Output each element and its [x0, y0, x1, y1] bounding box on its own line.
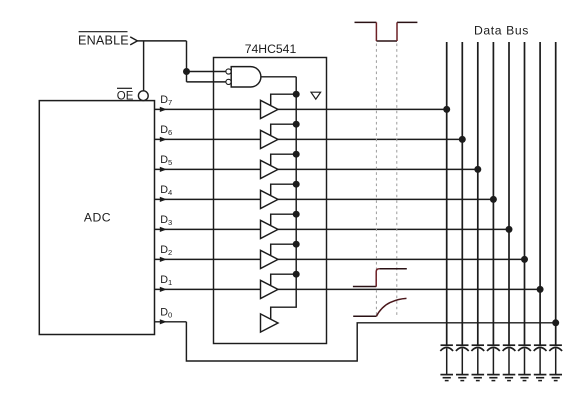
buffer U3e (D3) with enable stub — [261, 214, 297, 238]
D4 arrow — [160, 197, 167, 202]
wire: D7 buffer output to bus — [278, 108, 447, 110]
enable polarity symbol (nabla) — [311, 92, 321, 99]
D0 arrow — [160, 319, 167, 324]
ground G6 — [518, 375, 531, 381]
capacitor C1 — [440, 345, 453, 374]
capacitor C4 — [487, 345, 500, 374]
junction: ENABLE/AND node — [183, 68, 190, 75]
wire: ENABLE down to AND inputs — [186, 41, 188, 82]
wire: ENABLE horizontal run — [137, 40, 186, 42]
wire: D0 from ADC — [155, 321, 187, 323]
OE inverting bubble on ADC — [138, 91, 148, 101]
wire: D7 from ADC to buffer — [155, 108, 261, 110]
wire: D6 from ADC to buffer — [155, 138, 261, 140]
buffer U3a (D7) with enable stub — [261, 94, 297, 118]
wire: D2 buffer output to bus — [278, 258, 525, 260]
capacitor C8 — [549, 345, 562, 374]
D1 arrow — [160, 287, 167, 292]
fast rise output waveform — [353, 269, 407, 287]
ENABLE input arrow — [130, 37, 137, 45]
junction: D5 enable stub — [293, 151, 300, 158]
junction: D3 to bus line — [506, 226, 513, 233]
D2 arrow — [160, 257, 167, 262]
bus line 3 — [477, 42, 479, 345]
wire: D5 from ADC to buffer — [155, 168, 261, 170]
wire: AND output to enable bus — [261, 76, 296, 78]
junction: D1 enable stub — [293, 271, 300, 278]
wire: AND input A — [187, 71, 227, 73]
junction: D1 to bus line — [537, 286, 544, 293]
wire: D4 buffer output to bus — [278, 198, 493, 200]
ENABLE overline — [79, 31, 128, 33]
svg-text:D6: D6 — [160, 124, 172, 137]
svg-text:D7: D7 — [160, 94, 172, 107]
buffer U3c (D5) with enable stub — [261, 154, 297, 178]
OE enable pulse waveform — [355, 22, 418, 41]
timing dashed line 2 — [396, 44, 398, 317]
D6 arrow — [160, 137, 167, 142]
AND gate U2 (active-low inputs) — [226, 67, 261, 87]
junction: D2 to bus line — [521, 256, 528, 263]
capacitor C7 — [534, 345, 547, 374]
buffer U3b (D6) with enable stub — [261, 124, 297, 148]
svg-text:D5: D5 — [160, 154, 172, 167]
buffer U3d (D4) with enable stub — [261, 184, 297, 208]
wire: D4 from ADC to buffer — [155, 198, 261, 200]
svg-text:D1: D1 — [160, 274, 172, 287]
bus line 5 — [508, 42, 510, 345]
wire: D1 buffer output to bus — [278, 288, 540, 290]
capacitor C6 — [518, 345, 531, 374]
junction: D0 to bus line — [552, 319, 559, 326]
junction: D6 to bus line — [459, 136, 466, 143]
wire: D5 buffer output to bus — [278, 168, 478, 170]
slow rise output waveform — [353, 298, 406, 316]
svg-text:ENABLE: ENABLE — [78, 34, 129, 48]
wire: D6 buffer output to bus — [278, 138, 462, 140]
ground G2 — [456, 375, 469, 381]
ground G4 — [487, 375, 500, 381]
svg-text:D4: D4 — [160, 184, 172, 197]
bus line 6 — [524, 42, 526, 345]
D7 arrow — [160, 107, 167, 112]
buffer U3f (D2) with enable stub — [261, 244, 297, 268]
bus line 4 — [492, 42, 494, 345]
junction: D2 enable stub — [293, 241, 300, 248]
buffer U3h (D0, unconnected) — [261, 314, 279, 332]
capacitor C2 — [456, 345, 469, 374]
svg-text:D0: D0 — [160, 307, 172, 320]
timing dashed line 1 — [375, 44, 377, 317]
svg-text:Data Bus: Data Bus — [474, 23, 529, 37]
wire: branch to OE pin — [143, 41, 145, 91]
buffer U3g (D1) with enable stub — [261, 274, 297, 298]
junction: D4 to bus line — [490, 196, 497, 203]
svg-text:OE: OE — [117, 90, 134, 102]
ground G8 — [549, 375, 562, 381]
ADC U1 — [39, 101, 154, 335]
bus line 1 — [446, 42, 448, 345]
D3 arrow — [160, 227, 167, 232]
ground G3 — [472, 375, 485, 381]
wire: D0 bypass below buffer box — [186, 322, 555, 361]
buffer IC 74HC541 box — [214, 58, 327, 344]
junction: D6 enable stub — [293, 121, 300, 128]
junction: D3 enable stub — [293, 211, 300, 218]
ground G1 — [440, 375, 453, 381]
svg-text:74HC541: 74HC541 — [245, 42, 297, 56]
wire: AND input B — [187, 81, 227, 83]
bus line 7 — [539, 42, 541, 345]
bus line 2 — [461, 42, 463, 345]
wire: D3 from ADC to buffer — [155, 228, 261, 230]
svg-text:ADC: ADC — [84, 210, 111, 224]
wire: D3 buffer output to bus — [278, 228, 509, 230]
junction: D7 to bus line — [443, 106, 450, 113]
svg-text:D3: D3 — [160, 214, 172, 227]
capacitor C5 — [503, 345, 516, 374]
ground G5 — [503, 375, 516, 381]
svg-text:D2: D2 — [160, 244, 172, 257]
D5 arrow — [160, 167, 167, 172]
wire: D1 from ADC to buffer — [155, 288, 261, 290]
wire: enable bus vertical — [271, 77, 297, 319]
wire: D2 from ADC to buffer — [155, 258, 261, 260]
junction: D5 to bus line — [474, 166, 481, 173]
junction: D4 enable stub — [293, 181, 300, 188]
bus line 8 — [555, 42, 557, 345]
OE overline — [117, 87, 132, 89]
capacitor C3 — [471, 345, 484, 374]
ground G7 — [534, 375, 547, 381]
junction: D7 enable stub — [293, 91, 300, 98]
